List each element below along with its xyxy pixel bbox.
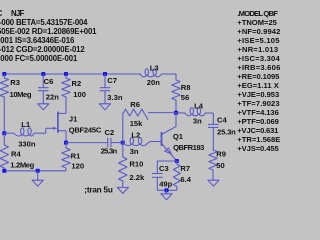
svg-text:3n: 3n [130,147,139,156]
svg-text:R9: R9 [216,149,226,158]
svg-text:+ISC=3.304: +ISC=3.304 [237,54,280,63]
svg-text:+TR=1.568E: +TR=1.568E [237,135,280,144]
svg-text:R1: R1 [71,151,81,160]
svg-text:22n: 22n [46,93,59,102]
svg-text:3.3n: 3.3n [107,93,123,102]
svg-text:NJF: NJF [11,9,25,18]
svg-text:-012 CGD=2.00000E-012: -012 CGD=2.00000E-012 [0,45,85,54]
svg-text:;tran 5u: ;tran 5u [84,186,113,195]
svg-text:25.3n: 25.3n [217,128,236,137]
svg-text:L1: L1 [21,120,31,129]
svg-text:20n: 20n [147,78,160,87]
svg-text:+EG=1.11 X: +EG=1.11 X [237,81,278,90]
svg-text:C: C [0,9,3,18]
svg-text:Q1: Q1 [173,132,184,141]
svg-text:3n: 3n [193,116,202,125]
svg-text:15k: 15k [130,119,143,128]
svg-text:+ISE=5.105: +ISE=5.105 [237,36,280,45]
svg-text:000 FC=5.00000E-001: 000 FC=5.00000E-001 [0,54,78,63]
svg-text:R10: R10 [129,159,143,168]
svg-text:C3: C3 [159,164,169,173]
svg-text:+TF=7.9023: +TF=7.9023 [237,99,279,108]
svg-text:R4: R4 [11,149,21,158]
svg-text:+NF=0.9942: +NF=0.9942 [237,27,280,36]
svg-text:C7: C7 [107,76,117,85]
svg-text:6.4: 6.4 [180,175,191,184]
svg-text:+VJC=0.631: +VJC=0.631 [237,126,279,135]
svg-text:L2: L2 [131,131,140,140]
svg-text:+IRB=3.606: +IRB=3.606 [237,63,280,72]
svg-text:L3: L3 [150,64,159,73]
svg-text:L4: L4 [194,102,204,111]
svg-text:100: 100 [73,90,86,99]
svg-text:25.3n: 25.3n [101,146,118,155]
svg-text:+NR=1.013: +NR=1.013 [237,45,278,54]
svg-text:+RE=0.1095: +RE=0.1095 [237,72,280,81]
svg-text:120: 120 [71,161,84,170]
svg-text:R7: R7 [180,164,190,173]
svg-text:J1: J1 [69,114,78,123]
svg-text:2.2k: 2.2k [129,173,145,182]
svg-text:+VJS=0.455: +VJS=0.455 [237,144,279,153]
svg-text:R6: R6 [130,100,140,109]
svg-text:505E-002 RD=1.20869E+001: 505E-002 RD=1.20869E+001 [0,27,97,36]
svg-text:-000 BETA=5.43157E-004: -000 BETA=5.43157E-004 [0,18,88,27]
svg-text:+VJE=0.953: +VJE=0.953 [237,90,279,99]
svg-text:QBFR193: QBFR193 [173,143,204,152]
svg-text:10Meg: 10Meg [10,90,32,99]
svg-text:.MODEL QBF: .MODEL QBF [237,9,278,18]
svg-text:+VTF=4.136: +VTF=4.136 [237,108,278,117]
svg-text:001 IS=3.64346E-016: 001 IS=3.64346E-016 [0,36,75,45]
svg-text:49p: 49p [159,179,172,188]
svg-text:C2: C2 [105,128,115,137]
svg-text:50: 50 [216,161,224,170]
svg-text:QBF245C: QBF245C [69,126,102,135]
svg-text:C4: C4 [217,116,227,125]
svg-text:56: 56 [181,93,189,102]
svg-text:+PTF=0.069: +PTF=0.069 [237,117,279,126]
svg-text:C6: C6 [44,77,54,86]
svg-text:330n: 330n [18,139,36,148]
svg-text:R2: R2 [72,79,82,88]
svg-text:R3: R3 [10,78,20,87]
svg-text:+TNOM=25: +TNOM=25 [237,18,277,27]
svg-text:1.2Meg: 1.2Meg [10,161,34,170]
svg-text:R8: R8 [181,83,191,92]
